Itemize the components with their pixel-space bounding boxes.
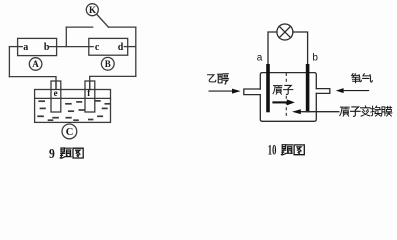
- wire end inside tube e: [55, 81, 57, 89]
- left bottom wire to electrode e: [9, 77, 56, 89]
- liquid dashes: [37, 101, 110, 120]
- ammeter label circle A: [29, 58, 42, 71]
- svg-text:a: a: [257, 53, 263, 64]
- wire lamp left: [268, 32, 277, 65]
- svg-text:A: A: [32, 59, 39, 69]
- white backing for 质子: [272, 84, 294, 95]
- electrode a (left bar): [266, 64, 270, 112]
- container C (electrolytic tank): [35, 90, 111, 123]
- text 质子 (proton): [273, 86, 282, 95]
- box B (cell with electrodes c,d): [89, 38, 128, 55]
- liquid surface line: [35, 97, 111, 99]
- fuel cell container lower outline: [260, 93, 316, 121]
- arrow ethanol in: [209, 90, 233, 92]
- leader line from membrane label: [300, 111, 339, 113]
- svg-text:C: C: [66, 127, 74, 138]
- switch label circle K: [86, 4, 98, 16]
- text 氧气: [352, 74, 362, 83]
- junction vertical to top wire: [65, 27, 67, 46]
- proton exchange membrane (dashed): [285, 73, 287, 118]
- text 乙醇: [208, 75, 216, 82]
- electrode b (right bar): [306, 64, 310, 112]
- svg-text:a: a: [23, 42, 28, 53]
- top wire left segment: [66, 26, 92, 28]
- left inlet tube: [244, 89, 260, 95]
- text 质子交换膜 (proton exchange membrane): [340, 107, 349, 116]
- svg-text:b: b: [44, 42, 50, 53]
- ammeter label circle B: [101, 57, 114, 70]
- svg-text:10: 10: [268, 143, 277, 159]
- right vertical wire: [135, 27, 137, 76]
- container label circle C: [62, 124, 77, 139]
- wire stub into box A left: [9, 46, 22, 48]
- svg-text:d: d: [118, 42, 124, 53]
- svg-text:e: e: [54, 88, 58, 98]
- wire b to c: [49, 46, 93, 48]
- wire stub d to right vertical: [124, 46, 136, 48]
- top wire right segment: [108, 26, 135, 28]
- test tube f: [85, 81, 95, 112]
- test tube e: [51, 81, 61, 112]
- left vertical wire: [8, 47, 10, 77]
- wire end inside tube f: [89, 81, 91, 89]
- box A (cell with electrodes a,b): [18, 38, 57, 55]
- right bottom wire to electrode f: [90, 76, 136, 89]
- svg-text:B: B: [105, 59, 111, 69]
- caption 题图: [60, 148, 71, 158]
- proton arrow (thick, rightward): [272, 101, 287, 103]
- lamp (circle with X): [277, 24, 293, 40]
- fuel cell container upper outline: [260, 73, 316, 89]
- switch K blade: [97, 15, 109, 28]
- svg-text:b: b: [312, 53, 318, 64]
- svg-text:c: c: [95, 42, 100, 53]
- svg-text:K: K: [89, 5, 96, 15]
- arrow oxygen in: [343, 90, 369, 92]
- caption 题图: [281, 145, 292, 155]
- right inlet tube: [316, 89, 330, 94]
- svg-text:9: 9: [49, 146, 55, 161]
- wire lamp right: [293, 32, 308, 65]
